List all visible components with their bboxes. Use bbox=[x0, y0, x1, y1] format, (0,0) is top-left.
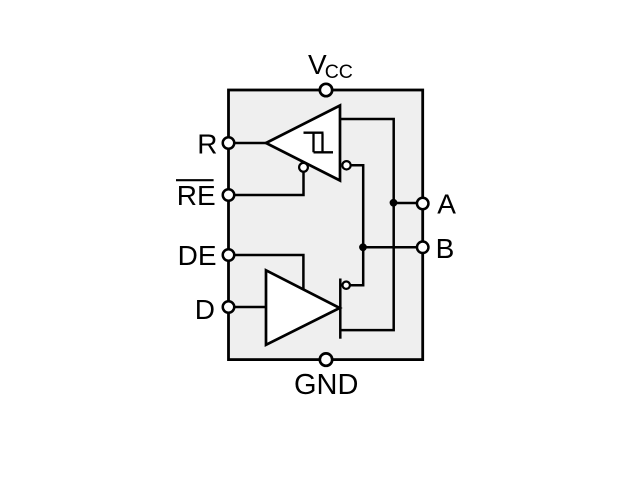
pin GND bbox=[320, 353, 332, 365]
svg-text:D: D bbox=[195, 294, 215, 325]
bubble: receiver enable (active low) bbox=[299, 163, 308, 172]
pin A bbox=[417, 198, 429, 210]
wire: receiver inverting input / B net / driver inverting output bbox=[350, 165, 363, 285]
svg-text:GND: GND bbox=[294, 369, 358, 401]
driver U2 bbox=[266, 270, 340, 345]
bubble: receiver inverting input bbox=[342, 161, 350, 169]
svg-text:R: R bbox=[197, 128, 217, 159]
junction B bbox=[359, 243, 367, 251]
wire: A line to pin bbox=[394, 202, 420, 205]
svg-text:RE: RE bbox=[177, 180, 216, 211]
wire: receiver non-inverting input / A net / driver output bbox=[339, 119, 394, 330]
wire: RE to receiver enable bubble bbox=[230, 171, 304, 195]
svg-text:B: B bbox=[436, 233, 455, 264]
pin RE bbox=[223, 189, 235, 201]
wire: D input bbox=[230, 306, 267, 309]
driver output bar bbox=[339, 279, 342, 339]
junction A bbox=[390, 199, 398, 207]
pin B bbox=[417, 242, 429, 254]
bubble: driver inverting output bbox=[343, 282, 350, 289]
overline RE bbox=[176, 179, 214, 181]
wire: DE to driver enable bbox=[230, 255, 303, 291]
wire: B line to pin bbox=[363, 246, 420, 249]
IC body bbox=[229, 90, 423, 360]
wire: R output (R pin to receiver vertex) bbox=[230, 142, 267, 145]
pin VCC bbox=[320, 84, 332, 96]
svg-text:DE: DE bbox=[178, 240, 217, 271]
svg-text:A: A bbox=[437, 188, 456, 219]
pin D bbox=[223, 301, 235, 313]
hysteresis symbol bbox=[304, 132, 334, 154]
pin DE bbox=[223, 249, 235, 261]
pin R bbox=[223, 137, 235, 149]
receiver U1 bbox=[266, 106, 340, 181]
